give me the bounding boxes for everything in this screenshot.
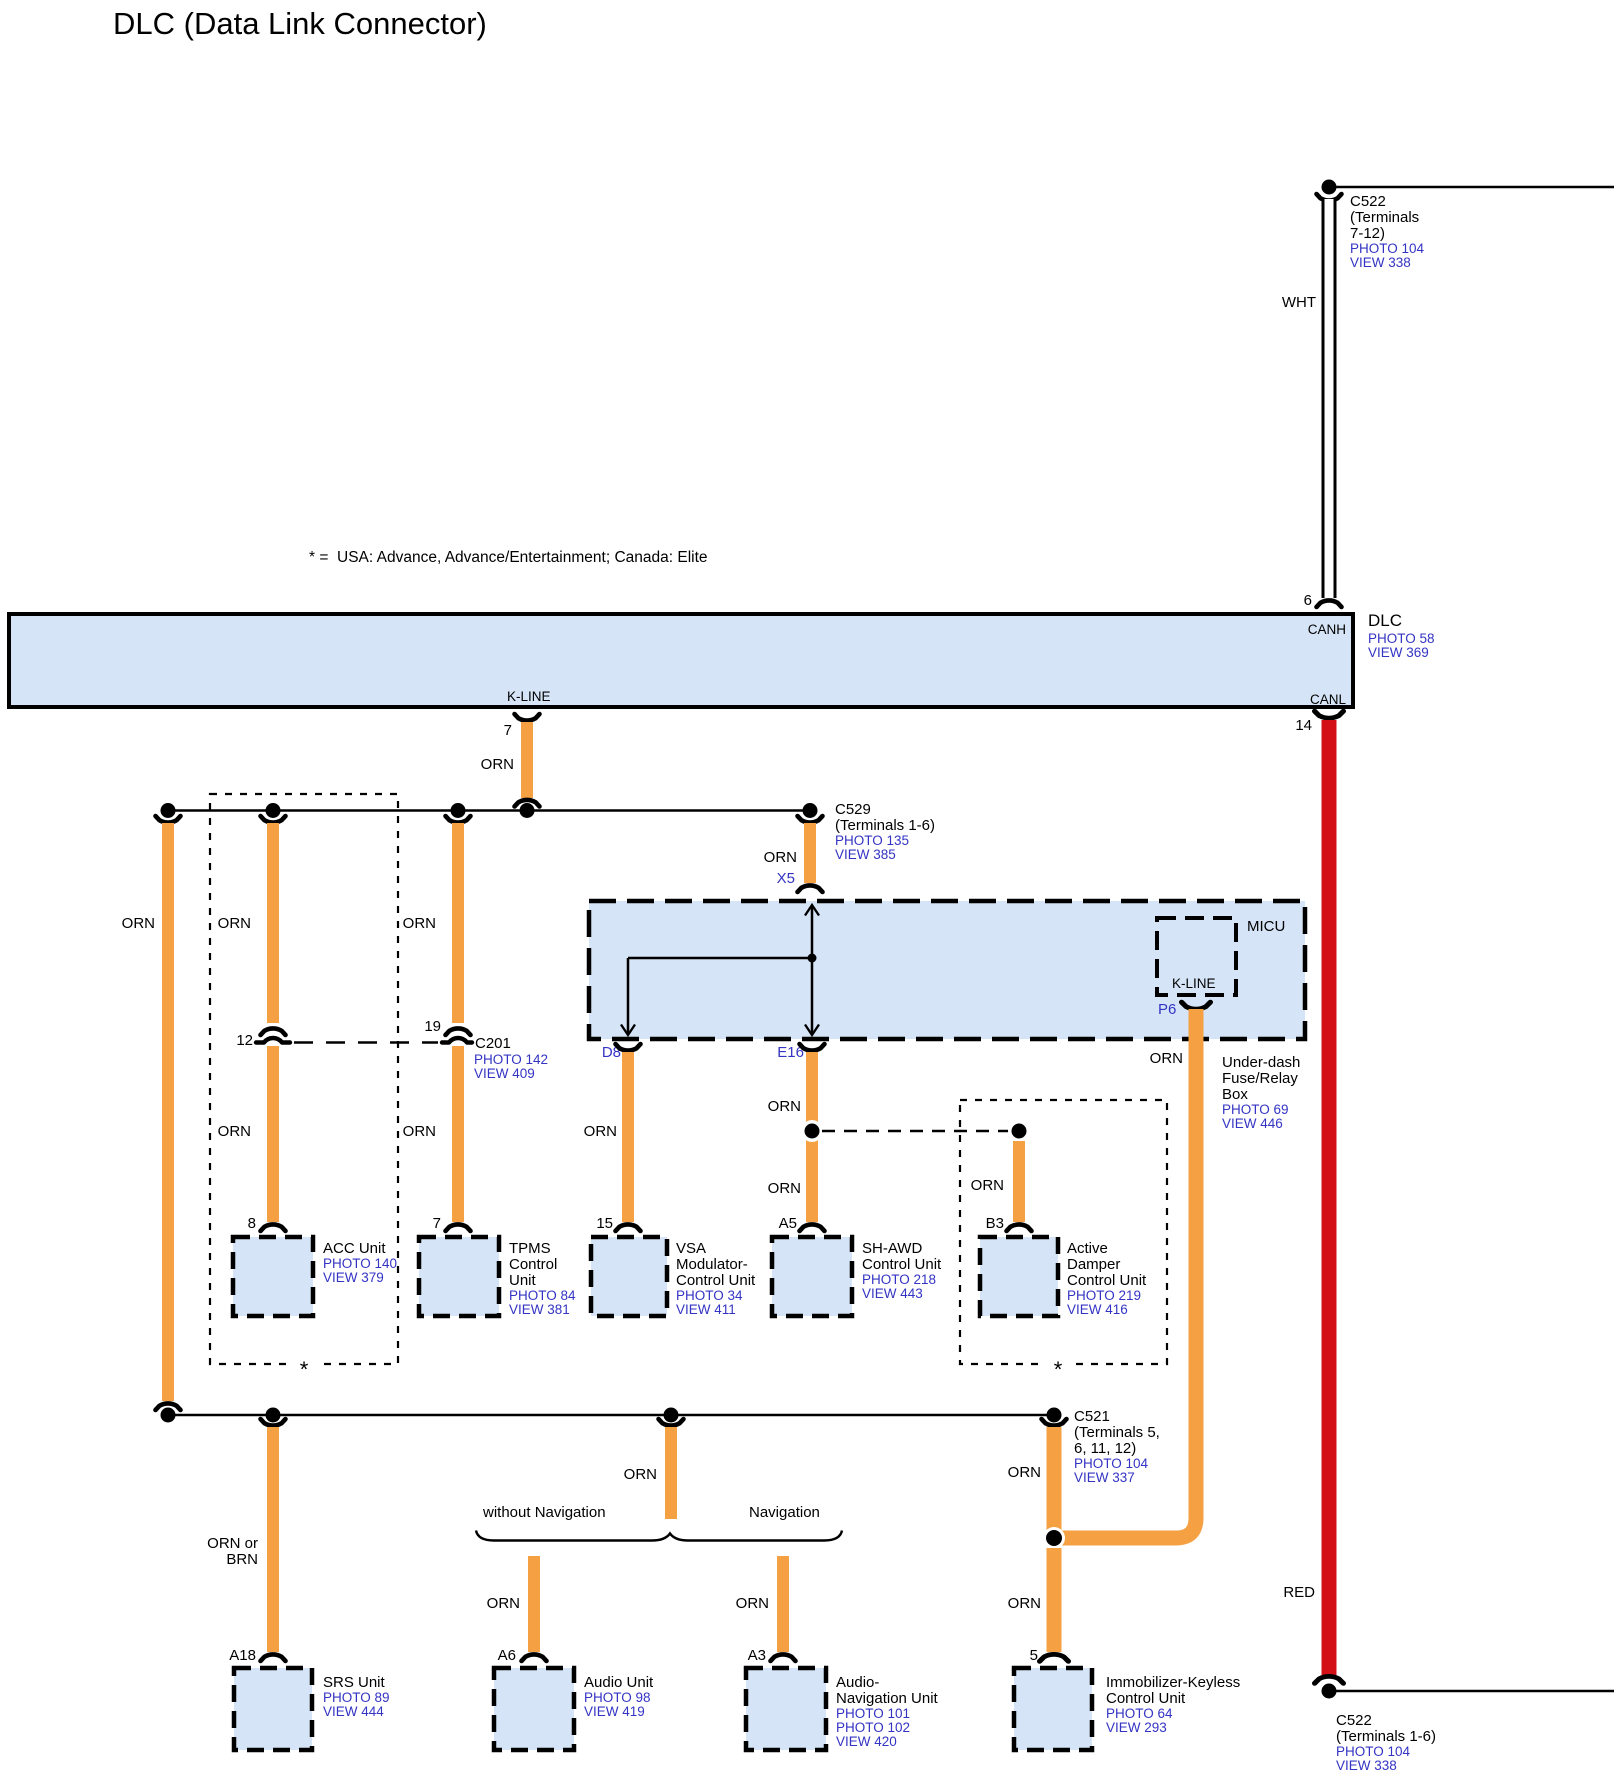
svg-text:(Terminals 1-6): (Terminals 1-6) — [1336, 1728, 1436, 1745]
svg-text:19: 19 — [424, 1018, 441, 1035]
svg-text:PHOTO 84: PHOTO 84 — [509, 1288, 576, 1303]
wire ORN: C521 to splice — [1008, 1419, 1067, 1530]
svg-text:ORN: ORN — [768, 1180, 801, 1197]
pin 6 label — [1304, 592, 1312, 609]
wire ORN: E16 upper segment to splice — [768, 1044, 825, 1232]
svg-text:VIEW 411: VIEW 411 — [676, 1302, 736, 1317]
svg-text:PHOTO 69: PHOTO 69 — [1222, 1102, 1289, 1117]
label WHT — [1282, 294, 1316, 311]
svg-text:Under-dash: Under-dash — [1222, 1054, 1300, 1071]
svg-text:SRS Unit: SRS Unit — [323, 1674, 386, 1691]
wire ORN or BRN: bus to SRS pin A18 — [207, 1419, 285, 1664]
svg-text:ORN: ORN — [487, 1595, 520, 1612]
note: trim legend — [309, 549, 708, 566]
connector C529 label — [835, 801, 935, 862]
svg-text:PHOTO 64: PHOTO 64 — [1106, 1706, 1173, 1721]
svg-text:Box: Box — [1222, 1086, 1248, 1103]
svg-text:PHOTO 135: PHOTO 135 — [835, 833, 909, 848]
svg-text:8: 8 — [248, 1215, 256, 1232]
svg-text:WHT: WHT — [1282, 294, 1316, 311]
wire: upper splice bus — [168, 809, 810, 812]
svg-text:CANH: CANH — [1308, 622, 1346, 637]
node: internal junction in fuse box — [808, 954, 817, 963]
svg-text:Navigation: Navigation — [749, 1504, 820, 1521]
svg-text:Control Unit: Control Unit — [1067, 1272, 1147, 1289]
svg-text:* = USA: Advance, Advance/Ent: * = USA: Advance, Advance/Entertainment;… — [309, 549, 708, 566]
svg-text:C529: C529 — [835, 801, 871, 818]
DLC label — [1368, 611, 1435, 660]
svg-text:Active: Active — [1067, 1240, 1108, 1257]
node: immobilizer K-LINE splice — [1043, 1527, 1065, 1549]
svg-text:Control Unit: Control Unit — [676, 1272, 756, 1289]
svg-text:(Terminals 5,: (Terminals 5, — [1074, 1424, 1160, 1441]
svg-text:ORN: ORN — [736, 1595, 769, 1612]
svg-text:P6: P6 — [1158, 1001, 1176, 1018]
svg-text:X5: X5 — [777, 870, 795, 887]
svg-text:VIEW 444: VIEW 444 — [323, 1704, 384, 1719]
svg-text:Unit: Unit — [509, 1272, 537, 1289]
svg-text:ORN: ORN — [971, 1177, 1004, 1194]
svg-text:6, 11, 12): 6, 11, 12) — [1074, 1440, 1136, 1457]
svg-text:*: * — [1054, 1357, 1063, 1382]
svg-text:DLC (Data Link Connector): DLC (Data Link Connector) — [113, 6, 487, 41]
svg-text:PHOTO 218: PHOTO 218 — [862, 1272, 936, 1287]
wire: internal fuse box branch to D8 — [621, 958, 812, 1035]
dashed option box (ACC branch, * trims) — [210, 794, 398, 1382]
svg-text:C522: C522 — [1350, 193, 1386, 210]
svg-text:(Terminals: (Terminals — [1350, 209, 1419, 226]
node: bus junction dots upper — [161, 803, 535, 818]
svg-text:7-12): 7-12) — [1350, 225, 1385, 242]
wire ORN: D8 to VSA pin 15 — [584, 1044, 641, 1232]
title — [113, 6, 487, 41]
svg-text:6: 6 — [1304, 592, 1312, 609]
wire ORN: fuse box P6 K-LINE output — [1054, 1001, 1210, 1538]
node: C529 splice on upper bus — [803, 803, 818, 818]
svg-text:ORN: ORN — [481, 756, 514, 773]
svg-text:without Navigation: without Navigation — [482, 1504, 606, 1521]
DLC connector box — [9, 614, 1353, 707]
svg-text:14: 14 — [1295, 717, 1312, 734]
component ACC Unit — [233, 1237, 397, 1316]
component Immobilizer-Keyless Control Unit — [1014, 1668, 1240, 1750]
svg-text:15: 15 — [596, 1215, 613, 1232]
svg-text:SH-AWD: SH-AWD — [862, 1240, 922, 1257]
wire: internal fuse box X5 to E16 arrow line — [805, 905, 819, 1035]
svg-text:PHOTO 58: PHOTO 58 — [1368, 631, 1435, 646]
svg-text:VIEW 420: VIEW 420 — [836, 1734, 897, 1749]
component Under-dash Fuse/Relay Box — [589, 901, 1305, 1039]
connector C522 (terminals 1-6) label — [1336, 1712, 1436, 1773]
svg-text:PHOTO 104: PHOTO 104 — [1074, 1456, 1149, 1471]
svg-text:ORN: ORN — [218, 915, 251, 932]
svg-text:ORN: ORN — [403, 1123, 436, 1140]
svg-text:VIEW 369: VIEW 369 — [1368, 645, 1429, 660]
svg-text:TPMS: TPMS — [509, 1240, 551, 1257]
svg-text:A6: A6 — [498, 1647, 516, 1664]
svg-text:12: 12 — [236, 1032, 253, 1049]
node: bus junction dots lower — [161, 1408, 1062, 1423]
svg-text:PHOTO 142: PHOTO 142 — [474, 1052, 548, 1067]
svg-text:VIEW 338: VIEW 338 — [1336, 1758, 1397, 1773]
svg-text:ORN: ORN — [764, 849, 797, 866]
svg-text:7: 7 — [504, 722, 512, 739]
svg-text:K-LINE: K-LINE — [1172, 976, 1216, 991]
svg-text:C201: C201 — [475, 1035, 511, 1052]
svg-text:ORN: ORN — [122, 915, 155, 932]
connector C522 (terminals 7-12) label — [1350, 193, 1425, 270]
svg-text:ORN: ORN — [1008, 1595, 1041, 1612]
component VSA Modulator-Control Unit — [591, 1237, 756, 1317]
wire ORN: TPMS branch upper segment (bus to C201 pin 19) — [403, 816, 471, 1023]
svg-text:ORN: ORN — [1008, 1464, 1041, 1481]
node: active damper branch start — [1008, 1120, 1030, 1142]
svg-text:VIEW 337: VIEW 337 — [1074, 1470, 1135, 1485]
svg-text:VIEW 409: VIEW 409 — [474, 1066, 535, 1081]
wire ORN: branch to Active Damper pin B3 — [971, 1141, 1032, 1232]
svg-text:CANL: CANL — [1310, 692, 1347, 707]
svg-text:VIEW 338: VIEW 338 — [1350, 255, 1411, 270]
wire RED: CANL from DLC pin 14 to C522 — [1283, 711, 1343, 1683]
svg-text:Fuse/Relay: Fuse/Relay — [1222, 1070, 1298, 1087]
svg-text:PHOTO 102: PHOTO 102 — [836, 1720, 910, 1735]
wire ORN: K-LINE from DLC pin 7 down to splice bus — [481, 714, 540, 807]
wire ORN: splice to Immobilizer pin 5 — [1008, 1548, 1069, 1664]
wire: C201 dashed inline connector line — [294, 1041, 438, 1044]
svg-text:Navigation Unit: Navigation Unit — [836, 1690, 939, 1707]
svg-text:VIEW 416: VIEW 416 — [1067, 1302, 1128, 1317]
svg-text:PHOTO 219: PHOTO 219 — [1067, 1288, 1141, 1303]
svg-text:ORN or: ORN or — [207, 1535, 258, 1552]
svg-text:ORN: ORN — [584, 1123, 617, 1140]
label Under-dash Fuse/Relay Box — [1222, 1054, 1300, 1131]
wire ORN: TPMS branch lower segment (C201 to TPMS pin 7) — [403, 1046, 471, 1232]
wire ORN: ACC branch lower segment (C201 to ACC pin 8) — [218, 1046, 286, 1232]
svg-text:ACC Unit: ACC Unit — [323, 1240, 386, 1257]
label without Navigation — [482, 1504, 606, 1521]
svg-text:PHOTO 104: PHOTO 104 — [1350, 241, 1425, 256]
svg-text:7: 7 — [433, 1215, 441, 1232]
svg-text:BRN: BRN — [226, 1551, 258, 1568]
component Audio Unit — [494, 1668, 654, 1750]
svg-text:ORN: ORN — [1150, 1050, 1183, 1067]
svg-text:ORN: ORN — [768, 1098, 801, 1115]
svg-text:ORN: ORN — [218, 1123, 251, 1140]
component SH-AWD Control Unit — [772, 1237, 942, 1316]
component Audio-Navigation Unit — [746, 1668, 939, 1750]
svg-text:RED: RED — [1283, 1584, 1315, 1601]
wire: option split brace — [476, 1531, 842, 1541]
svg-text:A3: A3 — [748, 1647, 766, 1664]
svg-text:DLC: DLC — [1368, 611, 1402, 630]
wire: dashed branch line to active damper — [822, 1130, 1012, 1133]
svg-text:Audio-: Audio- — [836, 1674, 879, 1691]
component SRS Unit — [234, 1668, 390, 1750]
dashed option box (Active Damper, * trims) — [960, 1100, 1167, 1382]
svg-text:VIEW 446: VIEW 446 — [1222, 1116, 1283, 1131]
node: splice at C522 terminals 7-12 — [1322, 180, 1614, 195]
svg-text:VIEW 381: VIEW 381 — [509, 1302, 570, 1317]
connector C521 label — [1074, 1408, 1160, 1485]
wire ORN: long left drop from upper bus to lower bus — [122, 816, 181, 1410]
svg-text:PHOTO 101: PHOTO 101 — [836, 1706, 910, 1721]
svg-text:Damper: Damper — [1067, 1256, 1120, 1273]
node: splice on E16 wire to active damper branch — [801, 1120, 823, 1142]
node: splice at C522 terminals 1-6 — [1322, 1684, 1614, 1699]
svg-text:C521: C521 — [1074, 1408, 1110, 1425]
svg-text:C522: C522 — [1336, 1712, 1372, 1729]
svg-text:PHOTO 89: PHOTO 89 — [323, 1690, 390, 1705]
connector C201 label — [474, 1035, 548, 1081]
svg-text:VIEW 385: VIEW 385 — [835, 847, 896, 862]
svg-text:(Terminals 1-6): (Terminals 1-6) — [835, 817, 935, 834]
svg-text:*: * — [300, 1357, 309, 1382]
wire ORN: bus drop to audio branch split — [624, 1419, 684, 1519]
wire ORN: C529 to fuse box pin X5 — [764, 816, 823, 892]
svg-text:ORN: ORN — [403, 915, 436, 932]
svg-text:Control Unit: Control Unit — [862, 1256, 942, 1273]
svg-text:Control Unit: Control Unit — [1106, 1690, 1186, 1707]
wire ORN: ACC branch upper segment (bus to C201 pin 12) — [218, 816, 286, 1023]
svg-text:Modulator-: Modulator- — [676, 1256, 748, 1273]
svg-text:ORN: ORN — [624, 1466, 657, 1483]
component MICU K-LINE block — [1157, 918, 1285, 995]
svg-text:A18: A18 — [229, 1647, 256, 1664]
wire ORN: split to Audio-Navigation Unit pin A3 — [736, 1556, 796, 1664]
svg-text:B3: B3 — [986, 1215, 1004, 1232]
svg-text:VIEW 419: VIEW 419 — [584, 1704, 645, 1719]
label Navigation — [749, 1504, 820, 1521]
svg-text:K-LINE: K-LINE — [507, 689, 551, 704]
component Active Damper Control Unit — [980, 1237, 1147, 1317]
svg-text:MICU: MICU — [1247, 918, 1285, 935]
svg-text:VIEW 293: VIEW 293 — [1106, 1720, 1167, 1735]
svg-text:Immobilizer-Keyless: Immobilizer-Keyless — [1106, 1674, 1240, 1691]
svg-text:A5: A5 — [779, 1215, 797, 1232]
svg-text:5: 5 — [1030, 1647, 1038, 1664]
wire WHT: CANH from DLC pin 6 to C522 — [1317, 194, 1342, 607]
component TPMS Control Unit — [419, 1237, 576, 1317]
wire ORN: split to Audio Unit pin A6 — [487, 1556, 547, 1664]
connector C201 pin 12 inline symbol — [236, 1028, 290, 1049]
svg-text:VSA: VSA — [676, 1240, 706, 1257]
svg-text:VIEW 443: VIEW 443 — [862, 1286, 923, 1301]
svg-text:PHOTO 140: PHOTO 140 — [323, 1256, 397, 1271]
svg-text:VIEW 379: VIEW 379 — [323, 1270, 384, 1285]
connector C201 pin 19 inline symbol — [424, 1018, 472, 1043]
svg-text:Control: Control — [509, 1256, 557, 1273]
svg-text:Audio Unit: Audio Unit — [584, 1674, 654, 1691]
svg-text:PHOTO 34: PHOTO 34 — [676, 1288, 743, 1303]
wire: lower splice bus — [168, 1414, 1054, 1417]
svg-text:PHOTO 104: PHOTO 104 — [1336, 1744, 1411, 1759]
svg-text:PHOTO 98: PHOTO 98 — [584, 1690, 651, 1705]
